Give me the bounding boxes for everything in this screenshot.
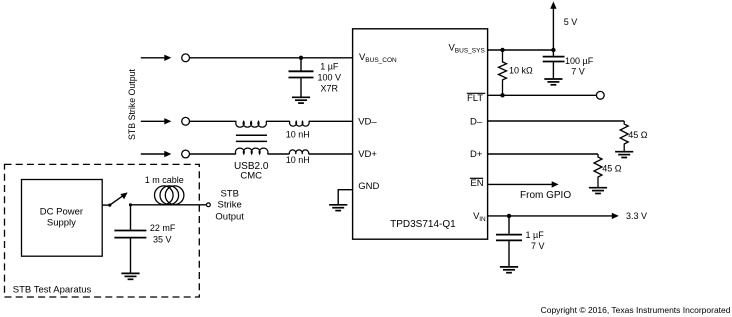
arrowhead 5V supply — [550, 2, 556, 9]
svg-text:Output: Output — [215, 211, 244, 222]
arrowhead switch blade — [120, 192, 127, 199]
arrowhead VD+ input — [164, 151, 171, 157]
wire C4 bottom lead — [508, 241, 510, 267]
svg-text:CMC: CMC — [240, 170, 262, 181]
junction dot at C4 — [507, 214, 511, 218]
capacitor C3 22mF 35V — [114, 230, 146, 232]
svg-text:10 nH: 10 nH — [286, 155, 310, 165]
wire D- line — [488, 120, 625, 122]
terminal circle VD+ input — [182, 150, 190, 158]
inductor 1 m cable coil — [155, 186, 184, 205]
ground under C1 — [292, 97, 310, 103]
ground under R3 — [589, 188, 607, 194]
svg-text:3.3 V: 3.3 V — [626, 211, 647, 221]
ground under C2 — [544, 79, 562, 85]
svg-text:EN: EN — [470, 178, 483, 189]
ground under C4 — [500, 267, 518, 273]
junction dot FLT/R1 — [500, 93, 504, 97]
svg-text:D+: D+ — [470, 149, 483, 160]
svg-text:IN: IN — [479, 216, 486, 223]
resistor R1 10 kOhm — [499, 50, 507, 95]
svg-text:1 µF: 1 µF — [526, 230, 545, 240]
svg-text:VD–: VD– — [358, 117, 377, 128]
wire C3 top lead — [130, 205, 132, 230]
svg-text:1 µF: 1 µF — [320, 61, 339, 71]
IC pin name FLT (overline) — [467, 93, 483, 104]
svg-text:D–: D– — [470, 117, 483, 128]
wire arrow into VD- terminal — [141, 120, 166, 122]
CMC core lines — [236, 134, 267, 136]
svg-text:7 V: 7 V — [531, 241, 545, 251]
ground under C3 — [121, 273, 139, 279]
wire C3 bottom lead — [130, 238, 132, 273]
label C3 value 22mF 35V — [150, 223, 176, 244]
svg-text:BUS_CON: BUS_CON — [365, 57, 397, 64]
wire VBUS_CON line to IC — [190, 57, 353, 59]
wire D+ line — [488, 153, 598, 155]
svg-text:GND: GND — [358, 181, 379, 192]
IC U1 TPD3S714-Q1 body — [353, 29, 488, 239]
wire VIN line to 3.3V — [488, 215, 613, 217]
svg-text:TPD3S714-Q1: TPD3S714-Q1 — [390, 219, 456, 230]
inductor L2 10nH top — [290, 121, 310, 126]
wire VD- to CMC — [190, 120, 237, 122]
capacitor C2 100uF 7V — [543, 56, 565, 58]
svg-text:STB Test Aparatus: STB Test Aparatus — [13, 285, 92, 296]
junction dot at C2/5V — [551, 48, 555, 52]
wire 5V rail up — [552, 8, 554, 50]
inductor CMC top winding L1a — [236, 121, 267, 127]
junction dot at C1 — [299, 56, 303, 60]
ground at GND pin — [329, 205, 347, 211]
switch SW1 blade — [110, 196, 123, 205]
ground under R2 — [615, 152, 633, 158]
svg-text:100 µF: 100 µF — [565, 56, 594, 66]
inductor L3 10nH bottom — [289, 150, 308, 154]
terminal circle VD- input — [182, 117, 190, 125]
svg-text:Copyright © 2016, Texas Instru: Copyright © 2016, Texas Instruments Inco… — [541, 305, 731, 315]
svg-text:5 V: 5 V — [564, 17, 578, 27]
svg-text:100 V: 100 V — [318, 72, 342, 82]
resistor R3 45 Ohm — [594, 154, 602, 188]
IC pin name VBUS_CON — [359, 52, 397, 64]
terminal circle VBUS_CON input — [182, 54, 190, 62]
wire VD+ to CMC — [190, 153, 236, 155]
wire DC supply to switch — [102, 204, 109, 206]
svg-text:22 mF: 22 mF — [150, 223, 176, 233]
svg-text:10 nH: 10 nH — [286, 129, 310, 139]
arrowhead 3.3V — [612, 213, 619, 219]
dashed box STB Test Aparatus — [5, 164, 200, 297]
label C2 value 100uF 7V — [565, 56, 594, 77]
inductor CMC bottom winding L1b — [235, 148, 268, 154]
svg-text:45 Ω: 45 Ω — [602, 164, 622, 174]
label C4 value 1uF 7V — [526, 230, 545, 251]
wire L3 to IC VD+ pin — [309, 153, 353, 155]
svg-text:7 V: 7 V — [571, 67, 585, 77]
label C1 value 1uF 100V X7R — [318, 61, 342, 93]
capacitor C1 1uF 100V X7R — [289, 70, 314, 72]
capacitor C4 1uF 7V — [496, 234, 522, 236]
svg-text:10 kΩ: 10 kΩ — [509, 66, 533, 76]
svg-text:X7R: X7R — [321, 83, 339, 93]
svg-text:45 Ω: 45 Ω — [628, 130, 648, 140]
wire arrow into VBUS_CON terminal — [141, 57, 166, 59]
resistor R2 45 Ohm — [620, 121, 628, 152]
terminal circle STB strike output — [207, 203, 211, 207]
svg-text:1 m cable: 1 m cable — [145, 175, 184, 185]
junction dot switch contact — [129, 203, 132, 206]
wire C1 bottom lead — [300, 78, 302, 97]
IC pin name VIN — [473, 211, 486, 223]
wire C1 top lead — [300, 58, 302, 71]
svg-text:BUS_SYS: BUS_SYS — [455, 48, 486, 55]
terminal circle FLT output — [596, 91, 604, 99]
DC Power Supply box — [22, 180, 103, 257]
svg-text:35 V: 35 V — [153, 235, 172, 245]
wire C4 top lead — [508, 216, 510, 234]
svg-text:Strike: Strike — [218, 200, 242, 211]
wire CMC to L2 — [266, 120, 290, 122]
label DC Power Supply — [40, 207, 83, 229]
label USB2.0 CMC — [234, 161, 269, 182]
wire C2 top lead — [552, 50, 554, 56]
svg-text:STB Strike Output: STB Strike Output — [127, 68, 137, 139]
IC pin name VBUS_SYS — [449, 43, 486, 55]
wire VBUS_SYS to 5V node — [488, 49, 554, 51]
wire EN from GPIO — [488, 183, 553, 185]
switch SW1 pivot dot — [108, 204, 111, 207]
wire C2 bottom lead — [552, 62, 554, 79]
svg-text:VD+: VD+ — [358, 149, 377, 160]
arrowhead EN — [552, 181, 559, 187]
svg-text:From GPIO: From GPIO — [520, 190, 571, 201]
wire GND pin to ground — [338, 190, 352, 205]
wire arrow into VD+ terminal — [141, 153, 166, 155]
wire CMC to L3 — [268, 153, 290, 155]
svg-text:Supply: Supply — [47, 218, 76, 229]
junction dot at R1 top — [500, 48, 504, 52]
arrowhead VD- input — [164, 118, 171, 124]
svg-text:DC Power: DC Power — [40, 207, 83, 218]
wire FLT line — [488, 94, 597, 96]
svg-text:STB: STB — [220, 189, 238, 200]
wire node to cable coil and output — [131, 204, 207, 206]
wire L2 to IC VD- pin — [309, 120, 353, 122]
label STB Strike Output (3 lines) — [215, 189, 244, 223]
arrowhead VBUS_CON input — [164, 55, 171, 61]
svg-text:FLT: FLT — [467, 93, 483, 104]
